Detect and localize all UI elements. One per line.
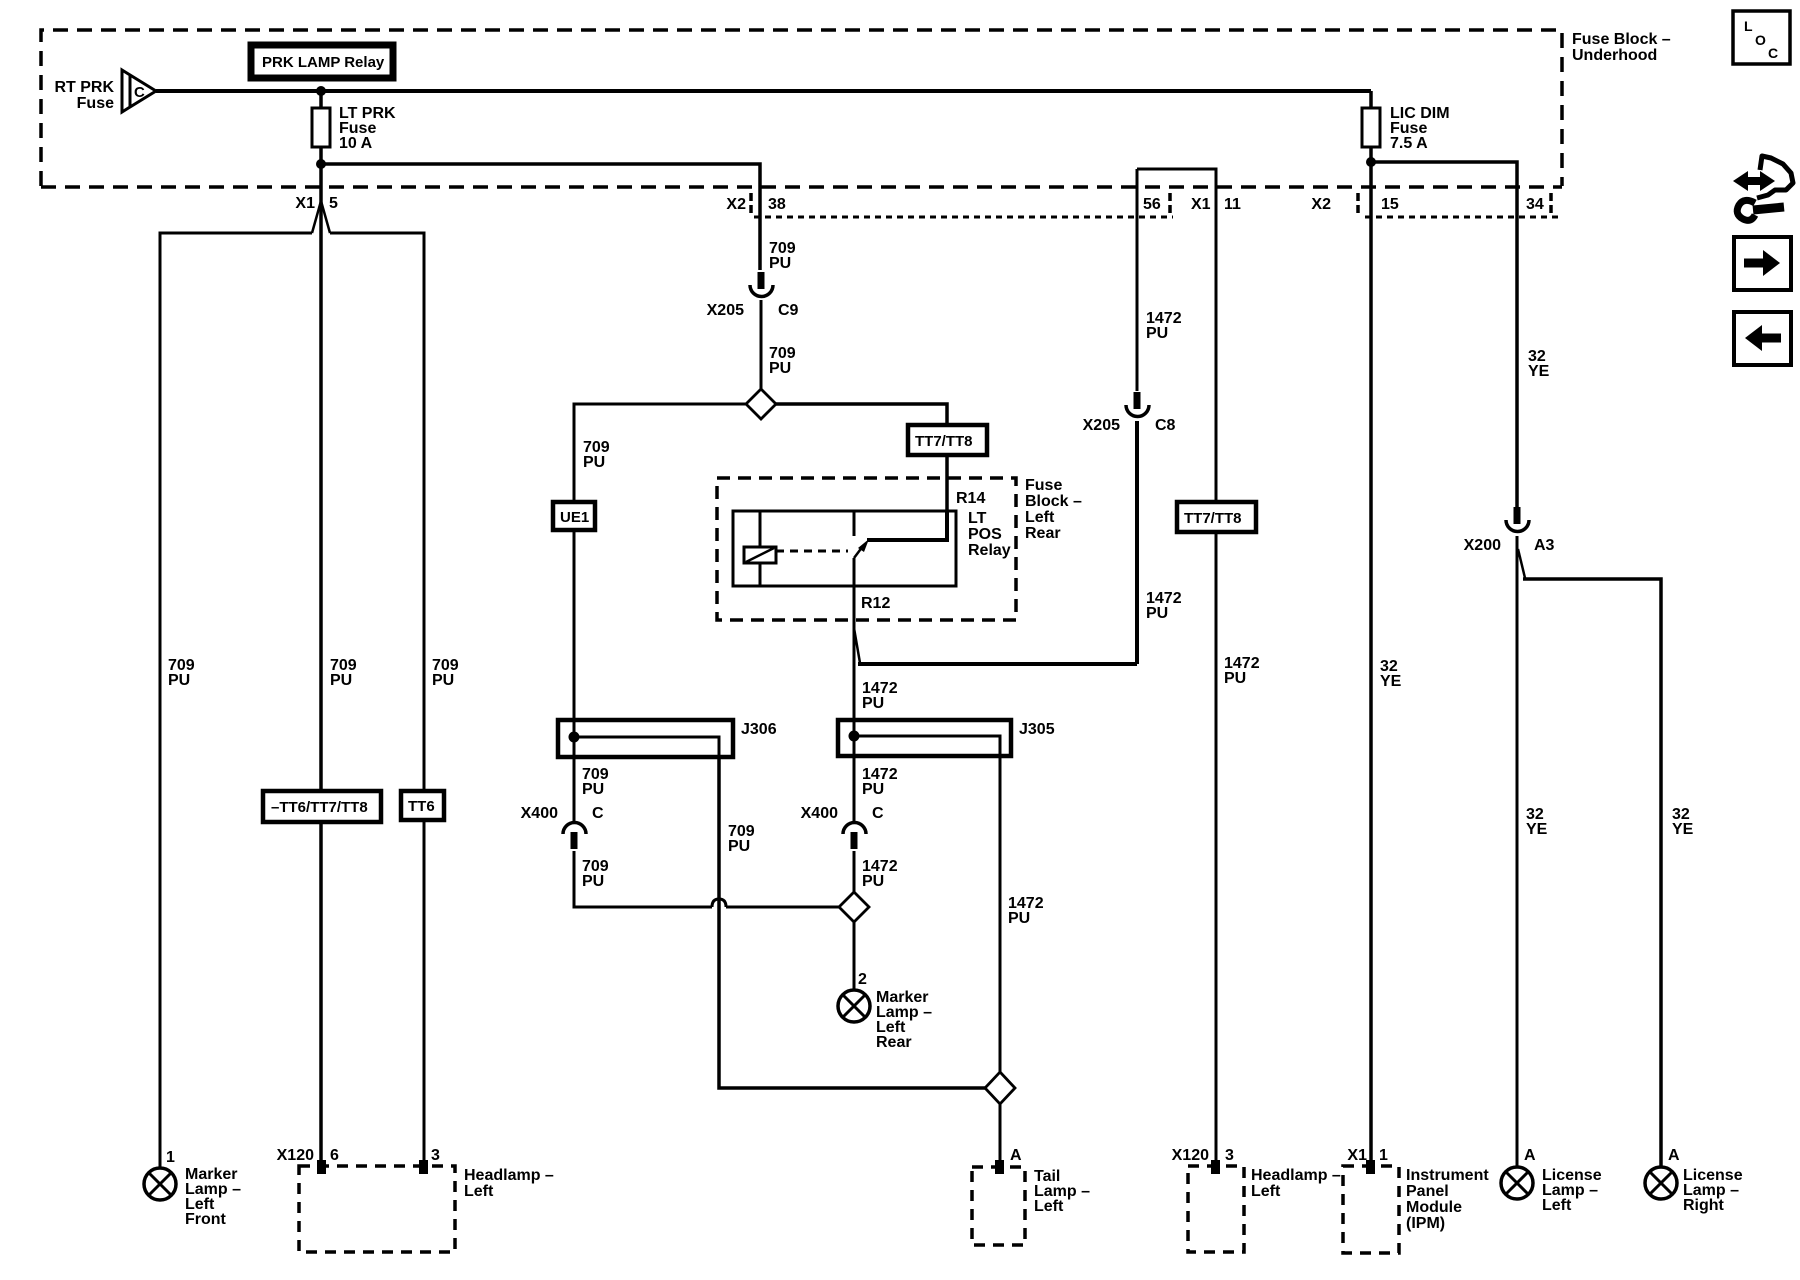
svg-text:YE: YE xyxy=(1380,673,1402,690)
svg-text:PU: PU xyxy=(1008,910,1030,927)
RT PRK Fuse triangle connector C xyxy=(54,70,156,112)
svg-text:PU: PU xyxy=(862,781,884,798)
svg-text:X1: X1 xyxy=(295,195,315,212)
lamp: license lamp right xyxy=(1645,1167,1743,1214)
connector X2 pin 38 labels xyxy=(726,193,785,213)
svg-text:2: 2 xyxy=(858,971,867,988)
svg-text:LT: LT xyxy=(968,510,987,527)
svg-text:C: C xyxy=(592,805,604,822)
connector X120 pins 6 and 3 (headlamp left) xyxy=(277,1147,440,1174)
wire label 32 YE (pin 15 branch) xyxy=(1380,658,1402,690)
svg-text:Relay: Relay xyxy=(968,542,1011,559)
svg-text:C9: C9 xyxy=(778,302,799,319)
svg-text:Left: Left xyxy=(1025,509,1055,526)
lamp: license lamp left xyxy=(1501,1167,1602,1214)
svg-text:Headlamp –: Headlamp – xyxy=(1251,1167,1341,1184)
fuse block - underhood dashed box xyxy=(41,30,1671,186)
wire label 32 YE (above X200) xyxy=(1528,348,1550,380)
svg-text:X205: X205 xyxy=(1083,417,1120,434)
in-line label box -TT6/TT7/TT8 xyxy=(263,791,381,822)
relay fixed contact post xyxy=(853,511,856,536)
splice diamond S1 xyxy=(746,389,776,419)
wire label 1472 PU (J305 right exit) xyxy=(1008,895,1044,927)
svg-text:X400: X400 xyxy=(801,805,838,822)
svg-text:PU: PU xyxy=(432,672,454,689)
svg-text:PU: PU xyxy=(1224,670,1246,687)
wire label 709 PU (UE1 branch) xyxy=(583,439,610,471)
svg-text:PU: PU xyxy=(1146,325,1168,342)
svg-text:X1: X1 xyxy=(1347,1147,1367,1164)
connector X1 pins 56 / 11 labels xyxy=(1143,193,1241,213)
icon: back arrow box xyxy=(1734,312,1791,365)
svg-text:Left: Left xyxy=(1251,1183,1281,1200)
svg-text:–TT6/TT7/TT8: –TT6/TT7/TT8 xyxy=(271,799,368,816)
wire label 1472 PU (below X400 C right) xyxy=(862,858,898,890)
svg-text:PU: PU xyxy=(728,838,750,855)
svg-text:C: C xyxy=(1768,45,1778,61)
svg-text:Instrument: Instrument xyxy=(1406,1167,1489,1184)
wire: J306 right exit down and over to splice S3 xyxy=(719,757,985,1088)
wire: X1 pin 5 fan-out xyxy=(160,164,424,1168)
wire label 709 PU (below X400 C left) xyxy=(582,858,609,890)
svg-text:A: A xyxy=(1668,1147,1680,1164)
svg-text:Fuse: Fuse xyxy=(1025,477,1062,494)
relay switch arm with arrow tip xyxy=(854,539,869,586)
connector body dotted line 15 to 34 xyxy=(1365,216,1560,219)
svg-text:PU: PU xyxy=(862,695,884,712)
wire: X400 right down to splice S2 xyxy=(853,851,856,892)
in-line label box UE1 xyxy=(553,502,595,530)
svg-text:Left: Left xyxy=(1034,1198,1064,1215)
svg-text:PU: PU xyxy=(769,255,791,272)
wire: pin 15 drop to IPM xyxy=(1369,162,1373,1162)
wire label 709 PU (above X205 C9) xyxy=(769,240,796,272)
relay R14 feed inside body xyxy=(867,511,947,540)
connector X400 cavity C (right) xyxy=(801,756,884,849)
svg-text:3: 3 xyxy=(1225,1147,1234,1164)
svg-text:15: 15 xyxy=(1381,196,1399,213)
svg-text:Right: Right xyxy=(1683,1197,1725,1214)
wire label 709 PU (center branch) xyxy=(330,657,357,689)
connector X200 cavity A3 xyxy=(1464,507,1555,554)
svg-text:34: 34 xyxy=(1526,196,1544,213)
wire: diamond left to UE1 drop xyxy=(574,404,746,720)
wire: R12 branch over to X205 C8 riser xyxy=(854,628,1137,664)
svg-text:Module: Module xyxy=(1406,1199,1462,1216)
connector X1 pin 1 (IPM) xyxy=(1347,1147,1388,1174)
svg-text:TT7/TT8: TT7/TT8 xyxy=(1184,510,1242,527)
wire label 32 YE (license right) xyxy=(1672,806,1694,838)
svg-text:X120: X120 xyxy=(277,1147,314,1164)
connector X2 pins 15 / 34 labels xyxy=(1311,193,1551,213)
wire: diamond right to TT7/TT8 drop xyxy=(776,404,947,513)
wire label 1472 PU (above J305) xyxy=(862,680,898,712)
svg-text:7.5 A: 7.5 A xyxy=(1390,135,1428,152)
svg-text:1: 1 xyxy=(166,1149,175,1166)
svg-text:A: A xyxy=(1524,1147,1536,1164)
svg-text:PU: PU xyxy=(769,360,791,377)
wire label 709 PU (right branch) xyxy=(432,657,459,689)
svg-text:RT PRK: RT PRK xyxy=(54,79,114,96)
svg-text:(IPM): (IPM) xyxy=(1406,1215,1445,1232)
in-line label box TT7/TT8 (right) xyxy=(1177,502,1256,532)
component: tail lamp - left dashed box xyxy=(972,1160,1090,1245)
icon: LOC box xyxy=(1733,11,1790,64)
svg-text:X205: X205 xyxy=(707,302,744,319)
svg-text:38: 38 xyxy=(768,196,786,213)
svg-text:Left: Left xyxy=(1542,1197,1572,1214)
connector row dashed line xyxy=(41,185,1562,189)
svg-text:TT7/TT8: TT7/TT8 xyxy=(915,433,973,450)
svg-text:PU: PU xyxy=(1146,605,1168,622)
svg-text:J305: J305 xyxy=(1019,721,1055,738)
svg-text:R14: R14 xyxy=(956,490,985,507)
svg-text:UE1: UE1 xyxy=(560,509,589,526)
component: instrument panel module dashed box xyxy=(1343,1166,1489,1253)
svg-text:POS: POS xyxy=(968,526,1002,543)
connector body dotted line X2/38 to 56 xyxy=(754,216,1173,219)
svg-text:Panel: Panel xyxy=(1406,1183,1449,1200)
svg-text:Headlamp –: Headlamp – xyxy=(464,1167,554,1184)
connector X205 cavity C9 xyxy=(707,272,799,389)
wire: main feed from RT PRK fuse to LIC DIM fuse xyxy=(156,89,1371,93)
wire label 1472 PU (below C8) xyxy=(1146,590,1182,622)
svg-text:X200: X200 xyxy=(1464,537,1501,554)
svg-text:YE: YE xyxy=(1526,821,1548,838)
wire label 1472 PU (above C8) xyxy=(1146,310,1182,342)
node: junction below LT PRK fuse xyxy=(316,159,326,169)
fuse: LT PRK Fuse 10 A xyxy=(312,91,396,165)
svg-text:3: 3 xyxy=(431,1147,440,1164)
svg-text:X1: X1 xyxy=(1191,196,1211,213)
svg-text:Rear: Rear xyxy=(876,1034,912,1051)
svg-text:PU: PU xyxy=(168,672,190,689)
splice pack J305 xyxy=(838,718,1055,758)
svg-text:PU: PU xyxy=(330,672,352,689)
svg-text:11: 11 xyxy=(1224,196,1241,213)
svg-text:Rear: Rear xyxy=(1025,525,1061,542)
in-line label box TT6 xyxy=(401,791,444,820)
svg-text:Underhood: Underhood xyxy=(1572,47,1657,64)
svg-text:Fuse Block –: Fuse Block – xyxy=(1572,31,1671,48)
splice diamond S2 xyxy=(839,892,869,922)
lamp: marker lamp left rear xyxy=(838,989,932,1051)
svg-text:YE: YE xyxy=(1672,821,1694,838)
relay U1: LT POS Relay body xyxy=(733,511,956,586)
svg-text:Block –: Block – xyxy=(1025,493,1082,510)
svg-text:10 A: 10 A xyxy=(339,135,373,152)
wire: splice S2 down to marker lamp left rear xyxy=(853,922,856,990)
svg-text:C8: C8 xyxy=(1155,417,1176,434)
splice diamond S3 xyxy=(985,1072,1015,1104)
svg-text:A: A xyxy=(1010,1147,1022,1164)
svg-text:Left: Left xyxy=(464,1183,494,1200)
icon: freehand shortcut arrows xyxy=(1733,156,1793,220)
svg-text:1: 1 xyxy=(1379,1147,1388,1164)
wire: LT PRK output to pin 38 drop xyxy=(321,164,760,270)
svg-text:YE: YE xyxy=(1528,363,1550,380)
svg-text:5: 5 xyxy=(329,195,338,212)
svg-text:PRK LAMP Relay: PRK LAMP Relay xyxy=(262,54,385,71)
fuse: LIC DIM Fuse 7.5 A xyxy=(1362,91,1450,164)
wire label 1472 PU (above X400 C right) xyxy=(862,766,898,798)
wire label 32 YE (license left) xyxy=(1526,806,1548,838)
wire: X400 left down, over (hop) to splice S2 xyxy=(574,851,839,907)
svg-text:6: 6 xyxy=(330,1147,339,1164)
connector X205 cavity C8 xyxy=(1083,169,1176,434)
svg-text:O: O xyxy=(1755,32,1766,48)
wire label 709 PU (above X400 C left) xyxy=(582,766,609,798)
relay name LT POS Relay xyxy=(968,510,1011,559)
svg-text:C: C xyxy=(872,805,884,822)
component: headlamp - left dashed box xyxy=(299,1166,554,1252)
relay coil xyxy=(744,511,776,586)
wire label 709 PU (left front marker branch) xyxy=(168,657,195,689)
wire: X200 down to license lamp left xyxy=(1516,536,1519,1167)
lamp: marker lamp left front xyxy=(144,1166,241,1228)
splice pack J306 xyxy=(558,718,777,759)
wire: J305 right exit down to splice S3 xyxy=(999,756,1002,1072)
fuse block - left rear dashed box xyxy=(717,477,1082,620)
svg-text:X120: X120 xyxy=(1172,1147,1209,1164)
wire: splice S3 down to tail lamp xyxy=(999,1104,1002,1160)
node: junction below LIC DIM fuse xyxy=(1366,157,1376,167)
svg-text:X2: X2 xyxy=(726,196,746,213)
node: junction at LT PRK fuse top xyxy=(316,86,326,96)
component: headlamp - left dashed box (second) xyxy=(1188,1166,1341,1252)
svg-text:J306: J306 xyxy=(741,721,777,738)
wire: LIC DIM output over to pin 34 xyxy=(1371,162,1517,508)
svg-text:Front: Front xyxy=(185,1211,227,1228)
svg-text:L: L xyxy=(1744,18,1753,34)
PRK LAMP Relay label box xyxy=(251,45,393,78)
svg-text:PU: PU xyxy=(583,454,605,471)
wire: R12 down to J305 xyxy=(853,586,856,737)
svg-text:PU: PU xyxy=(582,873,604,890)
wire label 1472 PU (pin 11 branch) xyxy=(1224,655,1260,687)
wire: C8 riser up to connector X1 pin 56 xyxy=(1135,421,1139,664)
svg-text:A3: A3 xyxy=(1534,537,1555,554)
wire: jumper pin 56 to pin 11 inside IPM xyxy=(1137,169,1216,1162)
connector X400 cavity C (left) xyxy=(521,757,604,849)
connector X120 pin 3 (headlamp left right side) xyxy=(1172,1147,1234,1174)
svg-text:56: 56 xyxy=(1143,196,1161,213)
svg-text:Fuse: Fuse xyxy=(77,95,114,112)
svg-text:PU: PU xyxy=(582,781,604,798)
wire: X200 branch to license lamp right xyxy=(1518,549,1661,1167)
svg-text:X2: X2 xyxy=(1311,196,1331,213)
wire label 709 PU (J306 right exit) xyxy=(728,823,755,855)
in-line label box TT7/TT8 (left) xyxy=(908,425,987,455)
wire label 709 PU (below X205 C9) xyxy=(769,345,796,377)
connector X1 pin 5 labels xyxy=(295,195,338,212)
icon: forward arrow box xyxy=(1734,237,1791,290)
relay actuator dashed link xyxy=(776,550,848,553)
svg-text:X400: X400 xyxy=(521,805,558,822)
svg-text:R12: R12 xyxy=(861,595,890,612)
svg-text:TT6: TT6 xyxy=(408,798,435,815)
svg-text:PU: PU xyxy=(862,873,884,890)
svg-text:C: C xyxy=(134,84,145,101)
